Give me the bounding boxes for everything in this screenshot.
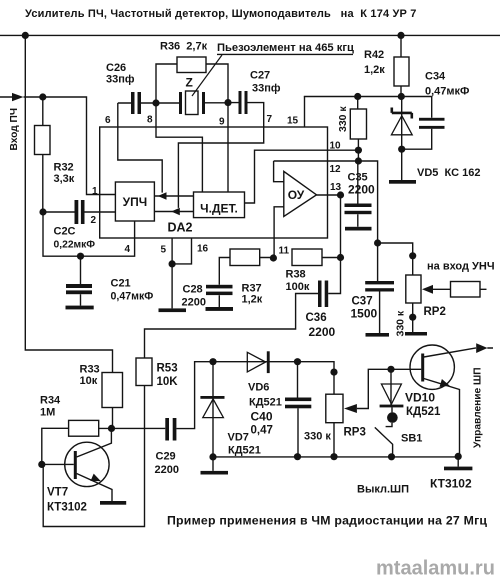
svg-text:Вход ПЧ: Вход ПЧ: [9, 108, 20, 151]
svg-text:5: 5: [161, 245, 167, 256]
svg-text:3,3к: 3,3к: [54, 173, 75, 185]
svg-text:2200: 2200: [182, 297, 206, 309]
svg-text:DA2: DA2: [168, 221, 193, 235]
svg-text:Выкл.ШП: Выкл.ШП: [357, 484, 409, 496]
svg-text:2200: 2200: [155, 464, 179, 476]
svg-text:0,47: 0,47: [251, 425, 273, 437]
svg-text:Пример применения в ЧМ радиост: Пример применения в ЧМ радиостанции на 2…: [167, 514, 487, 528]
svg-text:VD5 КС 162: VD5 КС 162: [417, 167, 480, 179]
svg-text:6: 6: [105, 115, 111, 126]
svg-text:9: 9: [219, 117, 225, 128]
svg-text:VD6: VD6: [248, 382, 269, 394]
svg-text:VD10: VD10: [405, 391, 435, 405]
svg-text:УПЧ: УПЧ: [123, 195, 148, 209]
svg-text:33пф: 33пф: [106, 74, 135, 86]
svg-text:С21: С21: [111, 278, 131, 290]
svg-text:2: 2: [91, 215, 97, 226]
svg-text:С26: С26: [106, 62, 126, 74]
svg-text:С40: С40: [251, 410, 273, 424]
svg-text:2200: 2200: [309, 325, 336, 339]
svg-text:0,22мкФ: 0,22мкФ: [54, 240, 96, 251]
svg-text:Z: Z: [186, 76, 193, 90]
svg-text:1: 1: [92, 186, 98, 197]
svg-text:mtaalamu.ru: mtaalamu.ru: [376, 558, 495, 580]
svg-text:R36 2,7к: R36 2,7к: [160, 41, 208, 53]
svg-text:КТ3102: КТ3102: [47, 502, 87, 514]
svg-text:330 к: 330 к: [395, 310, 407, 336]
svg-text:330 к: 330 к: [304, 431, 331, 443]
svg-text:15: 15: [287, 116, 299, 127]
svg-text:КТ3102: КТ3102: [430, 477, 472, 491]
svg-text:10: 10: [330, 141, 342, 152]
svg-text:VD7: VD7: [228, 432, 249, 444]
svg-text:С36: С36: [306, 312, 327, 324]
svg-text:13: 13: [330, 182, 342, 193]
svg-text:8: 8: [147, 115, 153, 126]
svg-text:1500: 1500: [351, 307, 378, 321]
svg-text:С28: С28: [183, 284, 203, 296]
svg-text:R33: R33: [80, 364, 100, 376]
svg-text:11: 11: [279, 246, 290, 257]
svg-text:Ч.ДЕТ.: Ч.ДЕТ.: [200, 202, 238, 216]
svg-text:VT7: VT7: [47, 487, 68, 499]
svg-text:R42: R42: [364, 49, 384, 61]
svg-text:16: 16: [197, 244, 209, 255]
svg-text:12: 12: [330, 164, 342, 175]
svg-text:R38: R38: [286, 269, 306, 281]
svg-text:7: 7: [267, 114, 273, 125]
svg-text:1,2к: 1,2к: [364, 64, 385, 76]
svg-text:100к: 100к: [286, 281, 310, 293]
svg-text:R34: R34: [40, 395, 61, 407]
svg-text:на вход УНЧ: на вход УНЧ: [427, 261, 495, 273]
svg-text:Пьезоэлемент на 465 кгц: Пьезоэлемент на 465 кгц: [217, 42, 354, 54]
svg-text:33пф: 33пф: [252, 83, 281, 95]
svg-text:КД521: КД521: [249, 397, 282, 409]
svg-text:Усилитель ПЧ, Частотный детект: Усилитель ПЧ, Частотный детектор, Шумопо…: [25, 8, 417, 20]
svg-text:ОУ: ОУ: [288, 188, 305, 202]
svg-text:10K: 10K: [157, 376, 179, 388]
svg-text:С27: С27: [250, 70, 270, 82]
svg-text:Управление ШП: Управление ШП: [473, 367, 484, 448]
svg-text:RP3: RP3: [344, 427, 366, 439]
svg-text:КД521: КД521: [228, 445, 261, 457]
svg-text:0,47мкФ: 0,47мкФ: [111, 291, 154, 303]
svg-text:RP2: RP2: [424, 306, 446, 318]
svg-text:0,47мкФ: 0,47мкФ: [425, 86, 469, 98]
svg-text:R32: R32: [54, 162, 74, 174]
svg-text:R53: R53: [157, 363, 178, 375]
svg-text:2200: 2200: [348, 183, 375, 197]
svg-text:330 к: 330 к: [337, 106, 349, 132]
svg-text:4: 4: [125, 244, 131, 255]
svg-text:1,2к: 1,2к: [242, 294, 263, 306]
svg-text:SB1: SB1: [401, 433, 422, 445]
svg-text:С2С: С2С: [54, 226, 76, 238]
svg-text:1М: 1М: [40, 407, 55, 419]
svg-text:10к: 10к: [80, 375, 98, 387]
svg-text:С29: С29: [156, 451, 176, 463]
svg-text:КД521: КД521: [406, 406, 441, 418]
svg-text:С34: С34: [425, 71, 446, 83]
